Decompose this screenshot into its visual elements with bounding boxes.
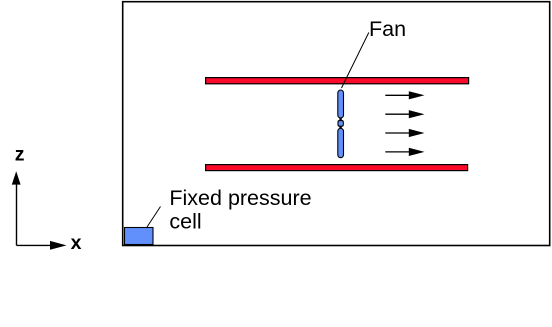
flow arrow 2 [385, 110, 424, 118]
z axis arrow [12, 171, 21, 245]
fixed pressure cell block [125, 228, 154, 245]
fan leader line [342, 33, 369, 89]
svg-text:Fan: Fan [369, 17, 406, 41]
pressure cell leader line [147, 207, 161, 228]
x axis arrow [17, 241, 67, 250]
flow arrow 4 [385, 148, 424, 156]
flow arrow 3 [385, 129, 424, 137]
svg-text:Fixed pressure: Fixed pressure [169, 186, 311, 210]
svg-text:cell: cell [169, 210, 201, 234]
lower duct wall [206, 165, 468, 171]
svg-text:z: z [15, 143, 25, 165]
domain boundary box [123, 2, 550, 246]
fan lower blade [338, 128, 344, 157]
fan upper blade [338, 90, 344, 118]
fan shaft spine [339, 100, 341, 150]
fan hub [338, 121, 343, 127]
upper duct wall [206, 78, 469, 84]
svg-text:x: x [71, 232, 82, 254]
flow arrow 1 [385, 91, 424, 99]
